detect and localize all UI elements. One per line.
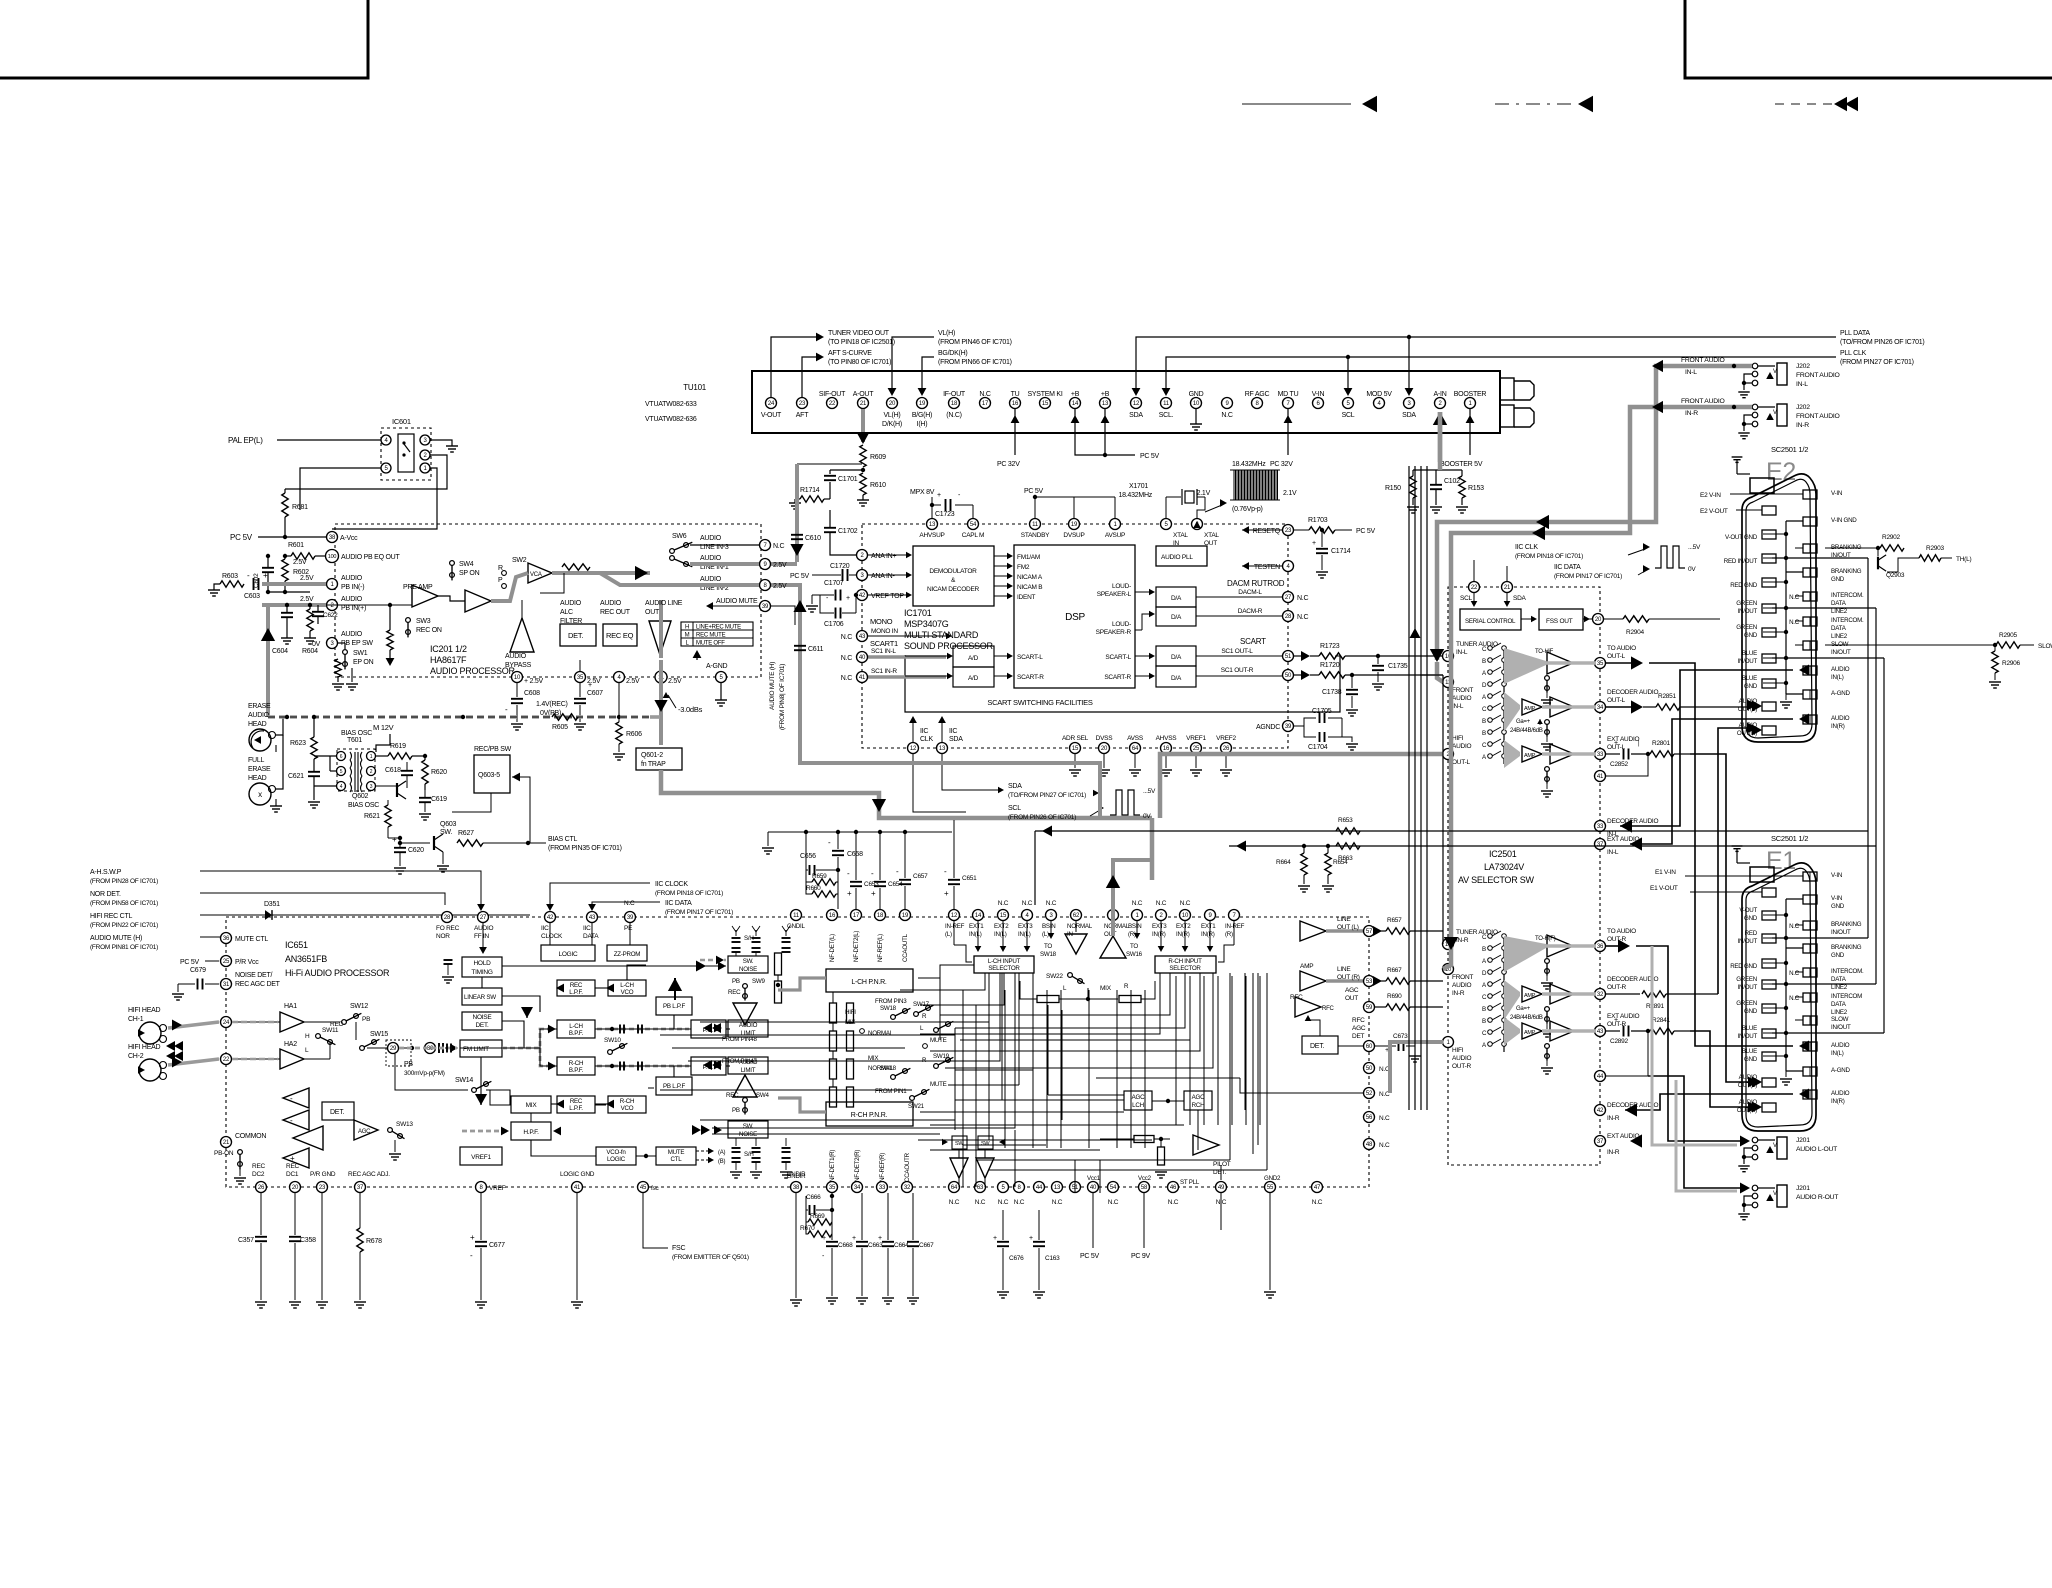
svg-text:CH-2: CH-2	[128, 1053, 144, 1060]
svg-text:R621: R621	[364, 813, 380, 820]
svg-text:Ga=+: Ga=+	[1516, 1006, 1531, 1012]
svg-text:24B/44B/6dB: 24B/44B/6dB	[1510, 1015, 1543, 1021]
svg-text:REC: REC	[728, 989, 741, 996]
svg-text:IC651: IC651	[285, 940, 308, 950]
svg-text:NOR DET.: NOR DET.	[90, 891, 121, 898]
svg-text:(FROM PIN8| OF IC701): (FROM PIN8| OF IC701)	[779, 664, 786, 730]
svg-text:V-OUT GND: V-OUT GND	[1725, 534, 1758, 541]
wire det to rfc	[1308, 1017, 1320, 1036]
svg-text:MIX: MIX	[526, 1102, 538, 1109]
svg-text:V-IN: V-IN	[1831, 895, 1842, 902]
wires top pins into selectors	[977, 921, 979, 948]
SCART E2 pin RED IN/OUT	[1762, 554, 1776, 563]
svg-text:C604: C604	[272, 648, 288, 655]
svg-text:SW4: SW4	[459, 561, 474, 568]
svg-text:SYSTEM KI: SYSTEM KI	[1027, 391, 1062, 398]
SCART E2 pin BLUE GND	[1762, 679, 1776, 688]
svg-text:54: 54	[1110, 1185, 1117, 1191]
svg-text:BLUE: BLUE	[1742, 650, 1757, 657]
mesh extra verticals	[1018, 973, 1020, 1085]
svg-text:VTUATW082-636: VTUATW082-636	[645, 416, 697, 423]
IC2501 pin43 EXT AUDIO OUT-R	[1595, 1026, 1606, 1037]
svg-text:R604: R604	[302, 648, 318, 655]
IC1701 pin23 RESETQ	[1283, 525, 1294, 536]
IC651 top pin 14 EXT1 IN(L)	[973, 910, 984, 921]
svg-text:VREF2: VREF2	[1216, 735, 1236, 742]
svg-text:AGC: AGC	[1345, 987, 1359, 994]
IC651 bottom pin26	[256, 1182, 267, 1193]
svg-text:STANDBY: STANDBY	[1021, 532, 1050, 539]
svg-text:47: 47	[1314, 1185, 1321, 1191]
TU101 pin 7 MD TU	[1283, 398, 1294, 409]
IC1701 pin42 VREF TOP	[857, 590, 868, 601]
D/A box 3	[1156, 646, 1196, 666]
T601 pin1	[367, 752, 376, 761]
T601 pin3	[367, 782, 376, 791]
mesh right horizontals	[913, 1029, 1176, 1031]
det box feedback amp	[510, 618, 534, 652]
SCART connector E1 outline	[1742, 863, 1816, 1131]
IC201 pin7 line in 3	[760, 540, 771, 551]
svg-text:PC 9V: PC 9V	[1131, 1253, 1151, 1260]
right arrow to sw-noise	[696, 961, 706, 972]
wire heads to bus	[276, 717, 283, 735]
amp E1 OUT R	[1550, 1021, 1574, 1041]
svg-text:R690: R690	[1387, 993, 1402, 1000]
svg-text:IN(R): IN(R)	[1201, 931, 1215, 938]
wire C604 R604 rail	[268, 591, 310, 593]
svg-text:PE: PE	[624, 925, 633, 932]
svg-text:18.432MHz: 18.432MHz	[1232, 461, 1266, 468]
IC651 top pin 15 EXT2 IN(L)	[998, 910, 1009, 921]
svg-text:16: 16	[829, 913, 836, 919]
svg-text:E2 V-OUT: E2 V-OUT	[1700, 508, 1728, 515]
DET. box	[560, 624, 596, 646]
svg-text:SIF-OUT: SIF-OUT	[819, 391, 846, 398]
IC2501 pin11 FRONT AUDIO IN-L	[1443, 677, 1454, 688]
svg-text:N.C: N.C	[1789, 619, 1800, 626]
svg-text:PB: PB	[732, 978, 740, 985]
svg-text:FM LIMIT: FM LIMIT	[463, 1046, 489, 1053]
capacitor C602	[262, 567, 274, 569]
resistor R663	[1336, 843, 1360, 849]
svg-text:13: 13	[939, 746, 946, 752]
FM LIMIT box	[460, 1040, 502, 1057]
IC2501 pin42 DECODER AUDIO IN-R	[1595, 1105, 1606, 1116]
svg-text:SW.: SW.	[743, 958, 754, 965]
svg-text:60: 60	[1366, 1044, 1373, 1050]
svg-text:IN-R: IN-R	[1456, 937, 1469, 944]
mute table	[681, 622, 753, 646]
svg-text:REC: REC	[570, 982, 583, 989]
IC651 bottom pin 40	[1088, 1182, 1099, 1193]
bus pin8 line in-2	[600, 573, 759, 585]
IIC arrows up	[912, 720, 914, 742]
svg-text:39: 39	[1285, 724, 1292, 730]
svg-text:COMMON: COMMON	[235, 1133, 266, 1140]
svg-text:E1 V-OUT: E1 V-OUT	[1650, 885, 1678, 892]
svg-text:R2891: R2891	[1646, 1003, 1665, 1010]
svg-text:SCL.: SCL.	[1159, 412, 1174, 419]
svg-text:REC: REC	[286, 1163, 300, 1170]
svg-text:15: 15	[1000, 913, 1007, 919]
svg-text:N.C: N.C	[1789, 970, 1800, 977]
svg-text:SW18: SW18	[1040, 951, 1057, 958]
svg-text:BIAS OSC: BIAS OSC	[341, 730, 372, 737]
svg-text:AGC: AGC	[1352, 1025, 1366, 1032]
resistor R619	[388, 753, 412, 759]
bus A-OUT to LINE IN-1	[795, 464, 799, 564]
TU101 pin 22 SIF-OUT	[827, 398, 838, 409]
IC201 pin1 AUDIO PB IN(-)	[327, 579, 338, 590]
PB LPF box 1	[656, 997, 692, 1015]
svg-text:AMP: AMP	[1524, 993, 1536, 999]
svg-text:2.1V: 2.1V	[1283, 490, 1297, 497]
svg-text:A-GND: A-GND	[706, 663, 728, 670]
svg-text:IN-R: IN-R	[1796, 422, 1809, 429]
IC1701 dashed outline	[862, 524, 1288, 748]
svg-text:C611: C611	[808, 646, 824, 653]
svg-text:MUTE OFF: MUTE OFF	[696, 641, 725, 647]
capacitor C668	[838, 1193, 840, 1240]
svg-text:62: 62	[1073, 913, 1080, 919]
wire VCA feedback	[540, 573, 564, 593]
SCART E1 pin V-OUT GND	[1762, 911, 1776, 920]
svg-text:+: +	[847, 889, 852, 898]
gray wedge bank R row3	[1504, 1017, 1520, 1045]
IC2501 pin20 fss	[1593, 614, 1604, 625]
SCART E1 pin SLOW IN/OUT	[1803, 1016, 1817, 1025]
svg-text:R657: R657	[1387, 917, 1402, 924]
svg-text:10: 10	[514, 675, 521, 681]
svg-text:22: 22	[223, 1057, 230, 1063]
svg-text:35: 35	[577, 675, 584, 681]
E1 inner gnd rail	[1785, 899, 1787, 1071]
svg-text:SW10: SW10	[604, 1037, 621, 1044]
svg-text:11: 11	[793, 913, 800, 919]
capacitor C603 electrolytic	[253, 578, 255, 590]
LOGIC box	[541, 945, 595, 961]
resistor R2891	[1642, 991, 1666, 997]
center mesh fill horizontals	[955, 1099, 1124, 1101]
svg-text:IN/OUT: IN/OUT	[1831, 929, 1851, 936]
resistor R1703	[1309, 527, 1335, 533]
T601 pin6	[337, 752, 346, 761]
svg-text:ST PLL: ST PLL	[1180, 1179, 1200, 1186]
gray dash FM path 3	[540, 1048, 555, 1066]
svg-text:2.5V: 2.5V	[773, 583, 787, 590]
svg-text:2.5V: 2.5V	[300, 575, 314, 582]
svg-text:41: 41	[859, 675, 866, 681]
bus front audio in-R link	[1443, 958, 1451, 969]
svg-text:L.P.F.: L.P.F.	[569, 1105, 583, 1112]
svg-text:(B): (B)	[718, 1159, 726, 1165]
resistor below SW3	[387, 630, 393, 650]
svg-text:AGC: AGC	[1192, 1094, 1205, 1101]
svg-text:26: 26	[258, 1185, 265, 1191]
IC1701 pin27 DACM-L	[1196, 596, 1282, 598]
svg-text:PC 5V: PC 5V	[230, 533, 253, 542]
svg-text:N.C: N.C	[773, 543, 785, 550]
svg-text:EXT2: EXT2	[994, 923, 1009, 930]
svg-text:L-CH P.N.R.: L-CH P.N.R.	[851, 979, 887, 986]
svg-text:TUNER AUDIO: TUNER AUDIO	[1456, 929, 1498, 936]
third cap columns	[785, 930, 787, 936]
pre-amp triangle 2	[465, 590, 491, 612]
TU101 pin 13 +B	[1100, 398, 1111, 409]
svg-text:P/R GND: P/R GND	[310, 1171, 336, 1178]
IC201 pin9	[760, 559, 771, 570]
bus head ch2 to pin22	[168, 1059, 219, 1065]
svg-text:NF-DET1(R): NF-DET1(R)	[829, 1150, 836, 1182]
svg-text:SCL: SCL	[1008, 805, 1021, 812]
connector J201 AUDIO L-OUT jack	[1777, 1137, 1787, 1159]
svg-text:N.C: N.C	[1156, 900, 1167, 907]
IC651 top pin 12 IN-REF (L)	[949, 910, 960, 921]
capacitor C1702	[824, 527, 836, 529]
mesh right vertical group	[1175, 976, 1177, 1125]
REC LPF box 2	[557, 1096, 595, 1113]
svg-text:IN: IN	[1173, 540, 1180, 547]
svg-text:TO: TO	[1044, 943, 1052, 950]
IC201 pin3 AUDIO PB EP SW	[327, 638, 338, 649]
REC EQ box	[603, 624, 637, 646]
wire bpf to pc 1	[595, 1028, 691, 1030]
svg-text:TIMING: TIMING	[471, 969, 492, 976]
IC651 bottom pin 32	[902, 1182, 913, 1193]
svg-text:57: 57	[1366, 929, 1373, 935]
svg-text:20: 20	[1101, 746, 1108, 752]
IC651 bottom pin 46	[1168, 1182, 1179, 1193]
svg-text:24: 24	[223, 1020, 230, 1026]
cap at pin30	[446, 1044, 448, 1053]
svg-text:REC OUT: REC OUT	[600, 609, 631, 616]
svg-text:49: 49	[1218, 1185, 1225, 1191]
svg-text:SW9: SW9	[752, 978, 765, 985]
ground pin41	[576, 1193, 578, 1300]
svg-text:C2852: C2852	[1610, 761, 1629, 768]
resistor R610	[860, 473, 866, 495]
svg-text:10: 10	[1193, 401, 1200, 407]
svg-text:AUDIO: AUDIO	[1452, 982, 1472, 989]
AGC LCH box	[1124, 1091, 1152, 1110]
wire pin27 to hold timing	[482, 923, 484, 950]
svg-text:21: 21	[1504, 585, 1511, 591]
svg-text:INTERCOM.: INTERCOM.	[1831, 968, 1864, 975]
audio line out amp	[649, 621, 671, 655]
IC1701 bottom pin 25 VREF1	[1191, 743, 1202, 754]
capacitor C619	[419, 797, 431, 799]
SCART E1 pin BLUE IN/OUT	[1762, 1029, 1776, 1038]
svg-text:SW4: SW4	[756, 1092, 769, 1099]
gray ghost J201 R	[1676, 1080, 1737, 1191]
svg-text:DATA: DATA	[1831, 625, 1847, 632]
svg-text:46: 46	[1170, 1185, 1177, 1191]
capacitor C653	[854, 830, 858, 834]
capacitor C621	[308, 771, 320, 773]
svg-text:IN-R: IN-R	[1607, 1149, 1620, 1156]
svg-text:IN-REF: IN-REF	[1225, 923, 1245, 930]
svg-text:C620: C620	[408, 847, 424, 854]
svg-text:19: 19	[1071, 522, 1078, 528]
svg-text:+: +	[1029, 1235, 1033, 1242]
svg-text:VCA: VCA	[530, 572, 542, 578]
svg-text:51: 51	[1285, 654, 1292, 660]
svg-text:AUDIO: AUDIO	[1831, 715, 1850, 722]
IC651 bottom pin 63	[975, 1182, 986, 1193]
svg-text:BRANKING: BRANKING	[1831, 568, 1862, 575]
junction dots PB bus	[285, 715, 289, 719]
wire PC 32V at pin16	[1014, 409, 1016, 455]
svg-text:D351: D351	[264, 901, 280, 908]
svg-text:C1706: C1706	[824, 621, 844, 628]
svg-text:(FROM PIN46 OF IC701): (FROM PIN46 OF IC701)	[938, 339, 1012, 346]
IC1701 pin13 IIC SDA	[937, 743, 948, 754]
svg-text:NOISE: NOISE	[739, 966, 757, 973]
svg-text:AUDIO: AUDIO	[1452, 1055, 1472, 1062]
wire PC 5V to A-Vcc	[258, 536, 326, 538]
ground sw13	[394, 1140, 396, 1152]
E1 right pin stubs	[1795, 898, 1803, 900]
svg-text:MULTI STANDARD: MULTI STANDARD	[904, 630, 979, 640]
capacitor C663	[861, 1193, 863, 1240]
svg-text:D/A: D/A	[1171, 675, 1182, 682]
svg-text:HA8617F: HA8617F	[430, 655, 467, 665]
svg-text:CTL: CTL	[671, 1156, 683, 1163]
svg-text:B: B	[1482, 718, 1486, 725]
gray wedge bank L row2	[1504, 692, 1520, 732]
arrows into audio limit 2	[714, 1061, 722, 1070]
mesh extra horizontals	[955, 1069, 1033, 1071]
capacitor C1738	[1350, 673, 1354, 677]
IC651 bottom pin20	[290, 1182, 301, 1193]
svg-text:B: B	[1482, 1018, 1486, 1025]
resistor R609	[860, 445, 866, 467]
svg-text:RFC: RFC	[1352, 1017, 1365, 1024]
svg-text:RESETQ: RESETQ	[1253, 528, 1281, 535]
svg-text:HEAD: HEAD	[248, 721, 267, 728]
svg-text:J202: J202	[1796, 404, 1810, 411]
center mesh long horizontals	[660, 1034, 955, 1036]
resistor R2841	[1631, 1030, 1648, 1032]
hifi head ch-2 symbol	[139, 1059, 161, 1081]
svg-text:R2851: R2851	[1658, 693, 1677, 700]
wire TUNER VIDEO OUT from pin24	[771, 337, 818, 397]
svg-text:64: 64	[951, 1185, 958, 1191]
gray dash FM path 5	[597, 1065, 689, 1068]
SCART E1 pin V-IN	[1803, 872, 1817, 881]
svg-text:AGNDC: AGNDC	[1256, 724, 1280, 731]
DET. box right	[1302, 1036, 1338, 1054]
svg-text:N.C: N.C	[624, 900, 635, 907]
svg-text:43: 43	[589, 915, 596, 921]
svg-text:LINE2: LINE2	[1831, 984, 1848, 991]
svg-text:SW6: SW6	[672, 533, 687, 540]
IC651 dashed outline	[226, 917, 1369, 1187]
svg-text:BRANKING: BRANKING	[1831, 944, 1862, 951]
SDA wire down	[942, 754, 999, 790]
svg-text:(FROM PIN27 OF IC701): (FROM PIN27 OF IC701)	[1840, 359, 1914, 366]
svg-text:17: 17	[853, 913, 860, 919]
svg-text:R1703: R1703	[1308, 517, 1328, 524]
IC201 bottom pin35 AUDIO ALC FILTER	[575, 672, 586, 683]
svg-text:MUTE CTL: MUTE CTL	[235, 936, 268, 943]
resistor R601	[291, 553, 315, 559]
wire pin4 down to R606	[618, 683, 620, 722]
ground pin55	[1269, 1193, 1271, 1290]
IC651 top pin 1 BSIN (R)	[1132, 910, 1143, 921]
svg-text:GND: GND	[1831, 576, 1845, 583]
arrow into sw-noise bottom	[714, 1126, 722, 1135]
svg-text:20: 20	[292, 1185, 299, 1191]
svg-text:(FROM PIN17 OF IC701): (FROM PIN17 OF IC701)	[1554, 573, 1622, 580]
svg-text:IN/OUT: IN/OUT	[1738, 608, 1758, 615]
wire PC 5V at pins 14,13	[1075, 409, 1105, 455]
svg-text:SW.: SW.	[440, 829, 452, 836]
svg-text:Q602: Q602	[352, 793, 368, 800]
SCART E1 pin BRANKING GND	[1803, 944, 1817, 953]
svg-text:ANA IN+: ANA IN+	[871, 553, 896, 560]
svg-text:AHVSS: AHVSS	[1156, 735, 1178, 742]
svg-text:XTAL: XTAL	[1204, 532, 1219, 539]
svg-text:DET.: DET.	[330, 1109, 344, 1116]
SCART E1 pin AUDIO IN(R)	[1803, 1090, 1817, 1099]
resistor SW1 leg	[335, 659, 341, 677]
L-CH INPUT SELECTOR box	[974, 956, 1034, 973]
svg-text:+ 2.5V: + 2.5V	[524, 678, 544, 685]
svg-text:OUT-R: OUT-R	[1607, 984, 1627, 991]
head amp cluster	[283, 1088, 309, 1108]
svg-text:37: 37	[1597, 842, 1604, 848]
IC651 pin30	[425, 1043, 436, 1054]
IC651 bottom pin 35	[827, 1182, 838, 1193]
IC601 pin3	[420, 435, 430, 445]
svg-text:MUTE: MUTE	[930, 1081, 947, 1088]
svg-text:INTERCOM: INTERCOM	[1831, 993, 1862, 1000]
svg-text:NF-DET2(R): NF-DET2(R)	[854, 1150, 861, 1182]
svg-text:PC 5V: PC 5V	[180, 959, 200, 966]
svg-text:IN-L: IN-L	[1796, 381, 1808, 388]
svg-text:BIAS OSC: BIAS OSC	[348, 802, 379, 809]
svg-text:34: 34	[1597, 705, 1604, 711]
amp E2 OUT L small	[1522, 699, 1542, 715]
svg-text:+: +	[290, 1154, 295, 1163]
svg-text:13: 13	[1102, 401, 1109, 407]
svg-text:+B: +B	[1071, 391, 1080, 398]
scart switch wires	[868, 655, 946, 659]
svg-text:LOUD-: LOUD-	[1112, 583, 1131, 590]
svg-text:J201: J201	[1796, 1137, 1810, 1144]
selector risers to bottom	[1099, 1160, 1101, 1193]
ground under R603	[214, 584, 220, 590]
svg-text:37: 37	[1597, 1139, 1604, 1145]
svg-text:AUDIO: AUDIO	[505, 653, 527, 660]
svg-text:42: 42	[859, 593, 866, 599]
svg-text:AUDIO: AUDIO	[560, 600, 582, 607]
svg-text:SPEAKER-L: SPEAKER-L	[1097, 591, 1132, 598]
svg-text:23: 23	[319, 1185, 326, 1191]
svg-text:IN-REF: IN-REF	[945, 923, 965, 930]
IC651 pin21 COMMON	[221, 1137, 232, 1148]
svg-text:NF-REF(R): NF-REF(R)	[879, 1153, 886, 1182]
resistor R2801	[1631, 753, 1648, 755]
arrow vco to lpf row1	[606, 984, 614, 993]
svg-text:AUDIO: AUDIO	[700, 535, 722, 542]
L-CH P.N.R. box	[826, 969, 913, 992]
svg-text:LIMIT: LIMIT	[741, 1030, 756, 1037]
svg-text:VCO: VCO	[621, 1105, 634, 1112]
center mesh wires L selector to PNR	[918, 965, 974, 978]
